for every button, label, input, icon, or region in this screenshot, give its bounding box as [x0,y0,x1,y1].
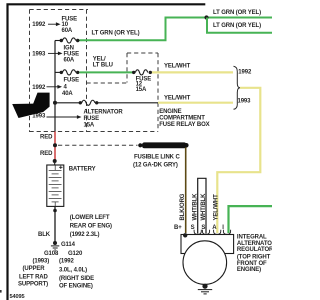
wire YEL/LT BLU [80,71,134,73]
terminal cup I [223,230,230,235]
wire LT GRN (OR YEL) from fuse F1 [80,18,273,41]
fuse F3 (ALTERNATOR FUSE 15A) [55,100,158,105]
svg-text:BATTERY: BATTERY [69,166,96,172]
svg-text:G120: G120 [68,251,83,257]
wire YEL/WHT 1 [152,71,233,73]
svg-text:G108: G108 [44,251,59,257]
svg-text:(LOWER LEFT: (LOWER LEFT [70,215,110,221]
fuse relay box dashed outline [30,10,159,133]
svg-text:4: 4 [64,84,68,90]
node bus to fusible link junction [53,143,57,147]
svg-text:REGULATOR: REGULATOR [237,247,272,253]
wire WHT/BLK pair jumper [198,178,206,233]
fuse F1 (FUSE 10 60A / IGN FUSE 60A) [55,38,82,43]
svg-text:YEL/WHT: YEL/WHT [164,64,191,70]
svg-text:FUSE: FUSE [84,116,100,122]
svg-text:ENGINE): ENGINE) [237,267,261,273]
svg-text:LT GRN (OR YEL): LT GRN (OR YEL) [213,10,261,16]
svg-text:OF ENGINE): OF ENGINE) [59,284,93,290]
brace years merge [234,66,241,109]
svg-text:LT GRN (OR YEL): LT GRN (OR YEL) [213,23,261,29]
svg-text:REAR OF ENG): REAR OF ENG) [70,224,112,230]
svg-text:B+: B+ [174,225,182,231]
svg-text:FUSE RELAY BOX: FUSE RELAY BOX [159,122,209,128]
svg-text:(RIGHT SIDE: (RIGHT SIDE [59,276,94,282]
svg-text:BLK/ORG: BLK/ORG [180,193,186,220]
battery B1 [54,163,56,165]
annotation arrow pointer [12,93,49,118]
terminal cup S2 [202,230,209,235]
svg-text:YEL/WHT: YEL/WHT [213,194,219,221]
terminal cup S1 [194,230,201,235]
node bus junction for alternator fuse [53,101,57,105]
svg-text:54095: 54095 [10,294,25,300]
ground alternator case [202,284,207,289]
svg-text:15A: 15A [84,122,95,128]
svg-text:(1992: (1992 [59,258,75,264]
fuse F2 (FUSE 4 40A) [55,70,76,75]
svg-text:1993: 1993 [32,114,46,120]
wire RED battery feed [54,132,56,162]
svg-text:3.0L, 4.0L): 3.0L, 4.0L) [59,268,87,274]
svg-text:1992: 1992 [238,70,252,76]
svg-text:(12 GA-DK GRY): (12 GA-DK GRY) [133,162,178,168]
wire LT GRN branch 2 [207,18,272,33]
node junction on LT GRN [204,15,208,19]
svg-text:WHT/BLK: WHT/BLK [201,193,207,221]
svg-text:40A: 40A [62,91,73,97]
svg-text:(1993): (1993) [33,259,50,265]
svg-text:YEL/WHT: YEL/WHT [164,95,191,101]
svg-text:ENGINE: ENGINE [159,109,181,115]
svg-text:S: S [191,225,195,231]
svg-text:COMPARTMENT: COMPARTMENT [159,116,205,122]
svg-text:(UPPER: (UPPER [23,266,46,272]
svg-text:1992: 1992 [32,85,46,91]
svg-text:FUSE: FUSE [64,77,80,83]
dashed connector from bus to fusible link [58,144,138,146]
svg-text:S: S [201,225,205,231]
svg-text:LT GRN (OR YEL): LT GRN (OR YEL) [92,31,140,37]
page border frame [8,4,206,300]
svg-text:WHT/BLK: WHT/BLK [192,193,198,221]
node B+ terminal dot [183,233,187,237]
svg-text:1992: 1992 [32,22,46,28]
svg-text:RED: RED [40,135,53,141]
wire YEL/WHT 2 [158,102,233,104]
svg-text:LEFT RAD: LEFT RAD [19,274,48,280]
wire BLK/ORG [185,148,187,234]
svg-text:BLK: BLK [38,232,51,238]
svg-text:ALTERNATOR: ALTERNATOR [237,241,272,247]
battery plates [49,165,62,206]
wire LT GRN return to alternator [229,206,273,233]
svg-text:ALTERNATOR: ALTERNATOR [84,109,124,115]
fuse F12 (FUSE 12 15A) [135,70,147,75]
node battery positive junction [53,159,57,163]
svg-text:RED: RED [40,151,53,157]
alternator circle U1 [183,241,227,285]
alternator regulator body [181,235,234,254]
svg-text:G114: G114 [61,242,76,248]
svg-text:FRONT OF: FRONT OF [237,261,267,267]
terminal cup A [214,230,221,235]
node battery bottom [53,209,57,213]
svg-text:I: I [222,225,224,231]
battery plus mark [59,166,62,169]
svg-text:60A: 60A [62,28,73,34]
wire battery negative BLK [54,206,56,241]
svg-text:1993: 1993 [32,51,46,57]
svg-text:15A: 15A [136,87,147,93]
svg-text:SUPPORT): SUPPORT) [18,281,48,287]
svg-text:INTEGRAL: INTEGRAL [237,235,267,241]
ground G114 battery [53,241,57,245]
fusible link C bar [138,143,142,147]
svg-text:FUSIBLE LINK C: FUSIBLE LINK C [134,155,180,161]
wire YEL/WHT trunk to alternator I terminal [217,88,260,233]
svg-text:LT BLU: LT BLU [93,62,113,68]
svg-text:1993: 1993 [238,99,252,105]
svg-text:(TOP RIGHT: (TOP RIGHT [237,255,271,261]
svg-text:(1992 2.3L): (1992 2.3L) [70,232,100,238]
supply bus wire [54,41,56,132]
svg-text:60A: 60A [64,57,75,63]
